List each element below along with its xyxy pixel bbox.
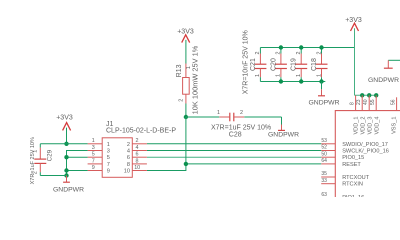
svg-text:SWDIO/_PIO0_17: SWDIO/_PIO0_17 — [342, 142, 388, 148]
svg-text:PIO0_15: PIO0_15 — [342, 155, 364, 161]
svg-text:R13: R13 — [176, 64, 183, 77]
svg-text:2: 2 — [296, 52, 302, 55]
svg-text:3: 3 — [92, 145, 95, 151]
svg-text:PIO1_16: PIO1_16 — [342, 195, 364, 197]
svg-text:63: 63 — [321, 192, 327, 197]
svg-text:SWCLK/_PIO0_16: SWCLK/_PIO0_16 — [342, 149, 389, 155]
svg-text:RTCXIN: RTCXIN — [342, 182, 363, 188]
svg-text:RTCXOUT: RTCXOUT — [342, 175, 370, 181]
svg-text:C19: C19 — [291, 58, 298, 71]
svg-text:VDD_2: VDD_2 — [360, 117, 366, 135]
svg-text:CLP-105-02-L-D-BE-P: CLP-105-02-L-D-BE-P — [106, 127, 176, 134]
svg-text:VDD_1: VDD_1 — [354, 117, 360, 135]
svg-text:8: 8 — [127, 162, 130, 168]
svg-text:10: 10 — [124, 169, 130, 175]
svg-text:2: 2 — [255, 52, 261, 55]
svg-text:2: 2 — [276, 52, 282, 55]
svg-text:1: 1 — [316, 74, 322, 77]
svg-text:C29: C29 — [47, 149, 54, 161]
svg-text:RESET: RESET — [342, 162, 361, 168]
svg-text:33: 33 — [321, 178, 327, 184]
svg-text:C21: C21 — [250, 58, 257, 71]
svg-text:7: 7 — [92, 158, 95, 164]
svg-text:GNDPWR: GNDPWR — [268, 132, 299, 139]
svg-text:5: 5 — [92, 152, 95, 158]
svg-text:1: 1 — [296, 74, 302, 77]
svg-text:64: 64 — [321, 158, 327, 164]
svg-text:7: 7 — [107, 162, 110, 168]
svg-text:2: 2 — [127, 142, 130, 148]
svg-text:+3V3: +3V3 — [345, 17, 362, 24]
svg-text:5: 5 — [107, 155, 110, 161]
svg-text:50: 50 — [321, 151, 327, 157]
svg-text:X7R=10nF 25V 10%: X7R=10nF 25V 10% — [242, 30, 249, 94]
svg-text:10K 100mW 25V 1%: 10K 100mW 25V 1% — [191, 45, 200, 114]
svg-text:2: 2 — [179, 99, 185, 102]
svg-text:GNDPWR: GNDPWR — [53, 187, 84, 194]
svg-text:56: 56 — [390, 99, 396, 105]
svg-text:8: 8 — [136, 158, 139, 164]
svg-text:6: 6 — [127, 155, 130, 161]
svg-text:+3V3: +3V3 — [56, 114, 73, 121]
svg-text:1: 1 — [255, 74, 261, 77]
svg-text:1: 1 — [276, 74, 282, 77]
svg-text:1: 1 — [107, 142, 110, 148]
svg-text:4: 4 — [136, 145, 139, 151]
svg-text:8: 8 — [349, 102, 355, 105]
svg-text:9: 9 — [92, 165, 95, 171]
svg-text:40: 40 — [363, 99, 369, 105]
svg-text:VSS_1: VSS_1 — [391, 117, 397, 134]
svg-text:C18: C18 — [311, 58, 318, 71]
svg-text:2: 2 — [240, 110, 243, 116]
svg-text:3: 3 — [107, 149, 110, 155]
svg-text:9: 9 — [107, 169, 110, 175]
svg-text:2: 2 — [316, 52, 322, 55]
svg-text:23: 23 — [356, 99, 362, 105]
svg-text:6: 6 — [136, 152, 139, 158]
svg-text:VDD_4: VDD_4 — [374, 117, 380, 135]
svg-text:GNDPWR: GNDPWR — [368, 77, 399, 84]
svg-text:55: 55 — [370, 99, 376, 105]
svg-text:2: 2 — [136, 138, 139, 144]
svg-text:GNDPWR: GNDPWR — [309, 100, 340, 107]
svg-text:C28: C28 — [229, 131, 242, 138]
svg-text:C20: C20 — [270, 58, 277, 71]
svg-text:1: 1 — [217, 110, 220, 116]
svg-text:52: 52 — [321, 145, 327, 151]
svg-text:4: 4 — [127, 149, 130, 155]
svg-text:10: 10 — [134, 165, 140, 171]
svg-text:53: 53 — [321, 138, 327, 144]
svg-text:35: 35 — [321, 171, 327, 177]
svg-text:X7R=1uF 25V 10%: X7R=1uF 25V 10% — [30, 137, 36, 184]
svg-text:VDD_3: VDD_3 — [367, 117, 373, 135]
svg-text:1: 1 — [92, 138, 95, 144]
